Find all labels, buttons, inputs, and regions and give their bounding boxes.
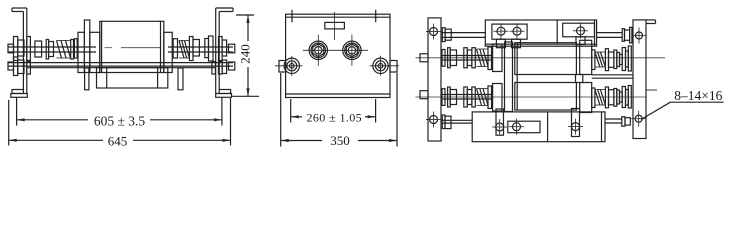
svg-text:605 ± 3.5: 605 ± 3.5 xyxy=(94,113,146,128)
svg-text:350: 350 xyxy=(330,133,350,148)
svg-text:645: 645 xyxy=(108,133,128,148)
svg-text:240: 240 xyxy=(238,44,253,64)
svg-text:8–14×16: 8–14×16 xyxy=(674,88,722,103)
svg-text:260 ± 1.05: 260 ± 1.05 xyxy=(307,110,363,124)
